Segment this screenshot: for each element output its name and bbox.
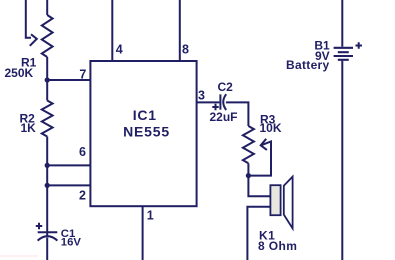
battery plus sign xyxy=(356,42,363,49)
svg-text:Battery: Battery xyxy=(286,58,329,72)
svg-text:2: 2 xyxy=(79,189,86,203)
svg-text:7: 7 xyxy=(79,67,86,81)
svg-text:22uF: 22uF xyxy=(210,110,238,124)
wire pin 7 xyxy=(47,79,90,81)
wire R3 wiper xyxy=(248,142,271,176)
svg-text:8: 8 xyxy=(182,42,189,56)
junction dot R3 wiper node xyxy=(246,173,251,178)
faint pink artifact bottom left xyxy=(0,255,38,257)
svg-text:1K: 1K xyxy=(21,121,37,135)
junction node A dot (pin7 tap) xyxy=(45,77,50,82)
resistor R2 zigzag xyxy=(42,101,53,137)
svg-text:IC1: IC1 xyxy=(133,107,157,123)
svg-text:8 Ohm: 8 Ohm xyxy=(258,239,297,253)
svg-text:NE555: NE555 xyxy=(123,123,170,139)
wire C1 bottom to edge xyxy=(46,238,48,260)
wire R2 bottom through pin6/pin2 nodes down to C1 xyxy=(46,137,48,236)
wire pin 6 xyxy=(47,164,90,166)
wire speaker bottom terminal to bottom edge xyxy=(247,207,270,260)
wire battery positive from top edge xyxy=(341,0,343,47)
svg-text:6: 6 xyxy=(79,145,86,159)
battery B1 plate long 1 xyxy=(334,47,353,49)
resistor R1 zigzag xyxy=(42,15,53,57)
speaker K1 body xyxy=(270,185,280,215)
capacitor C1 plus sign xyxy=(36,223,42,229)
wire R1 wiper feed from top xyxy=(26,0,31,38)
resistor R3 zigzag xyxy=(243,126,254,163)
capacitor C2 plus sign xyxy=(212,104,218,110)
wire pin 2 xyxy=(47,184,90,186)
wire R3 bottom to junction xyxy=(247,163,249,175)
wire R1 bottom to node A xyxy=(46,57,48,101)
capacitor C2 straight plate xyxy=(219,94,221,109)
svg-text:1: 1 xyxy=(147,209,154,223)
junction dot pin6 node xyxy=(45,163,50,168)
wire C2 to R3 top xyxy=(226,102,249,126)
IC U1 body NE555 xyxy=(90,61,196,206)
capacitor C2 curved plate xyxy=(223,94,226,110)
battery B1 plate short 1 xyxy=(338,51,349,53)
svg-text:10K: 10K xyxy=(260,121,282,135)
capacitor C1 top plate xyxy=(38,231,58,233)
speaker K1 cone xyxy=(284,177,293,229)
capacitor C1 curved plate xyxy=(38,236,58,240)
arrow head of R1 wiper xyxy=(30,34,37,46)
svg-text:3: 3 xyxy=(198,89,205,103)
svg-text:16V: 16V xyxy=(61,236,82,248)
arrow head of R3 wiper xyxy=(261,139,267,150)
wire pin 1 to bottom edge xyxy=(142,206,144,260)
wire speaker top terminal xyxy=(248,176,270,197)
battery B1 plate short 2 xyxy=(338,59,349,61)
wire pin 4 to top edge xyxy=(111,0,113,61)
wire pin 8 to top edge xyxy=(179,0,181,61)
wire battery negative to bottom edge xyxy=(341,61,343,260)
svg-text:C2: C2 xyxy=(218,80,234,94)
wire pin 3 to C2 xyxy=(197,101,220,103)
svg-text:250K: 250K xyxy=(5,66,34,80)
battery B1 plate long 2 xyxy=(334,55,353,57)
junction dot pin2 node xyxy=(45,183,50,188)
svg-text:4: 4 xyxy=(116,42,123,56)
wire top stub of R1 xyxy=(46,0,48,15)
